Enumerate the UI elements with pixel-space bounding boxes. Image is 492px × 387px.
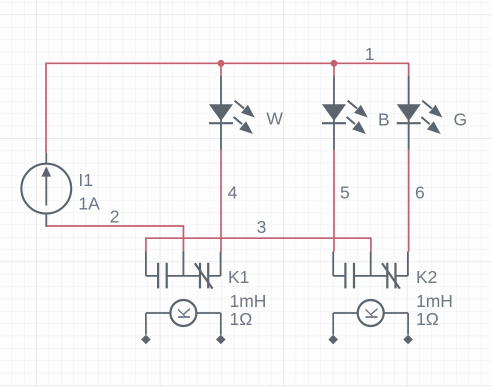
svg-text:B: B bbox=[378, 109, 390, 129]
svg-text:W: W bbox=[266, 109, 283, 129]
svg-text:1mH: 1mH bbox=[416, 291, 453, 311]
svg-text:2: 2 bbox=[110, 207, 120, 227]
svg-text:1Ω: 1Ω bbox=[230, 309, 253, 329]
svg-text:I1: I1 bbox=[78, 170, 93, 190]
svg-text:3: 3 bbox=[257, 217, 267, 237]
svg-text:4: 4 bbox=[228, 182, 238, 202]
svg-text:1: 1 bbox=[365, 44, 375, 64]
svg-text:G: G bbox=[454, 109, 468, 129]
svg-text:1mH: 1mH bbox=[230, 291, 267, 311]
svg-text:K2: K2 bbox=[416, 267, 437, 287]
svg-text:1A: 1A bbox=[78, 194, 100, 214]
svg-text:K1: K1 bbox=[228, 267, 249, 287]
svg-text:1Ω: 1Ω bbox=[416, 309, 439, 329]
svg-text:6: 6 bbox=[415, 183, 425, 203]
svg-text:5: 5 bbox=[340, 183, 350, 203]
